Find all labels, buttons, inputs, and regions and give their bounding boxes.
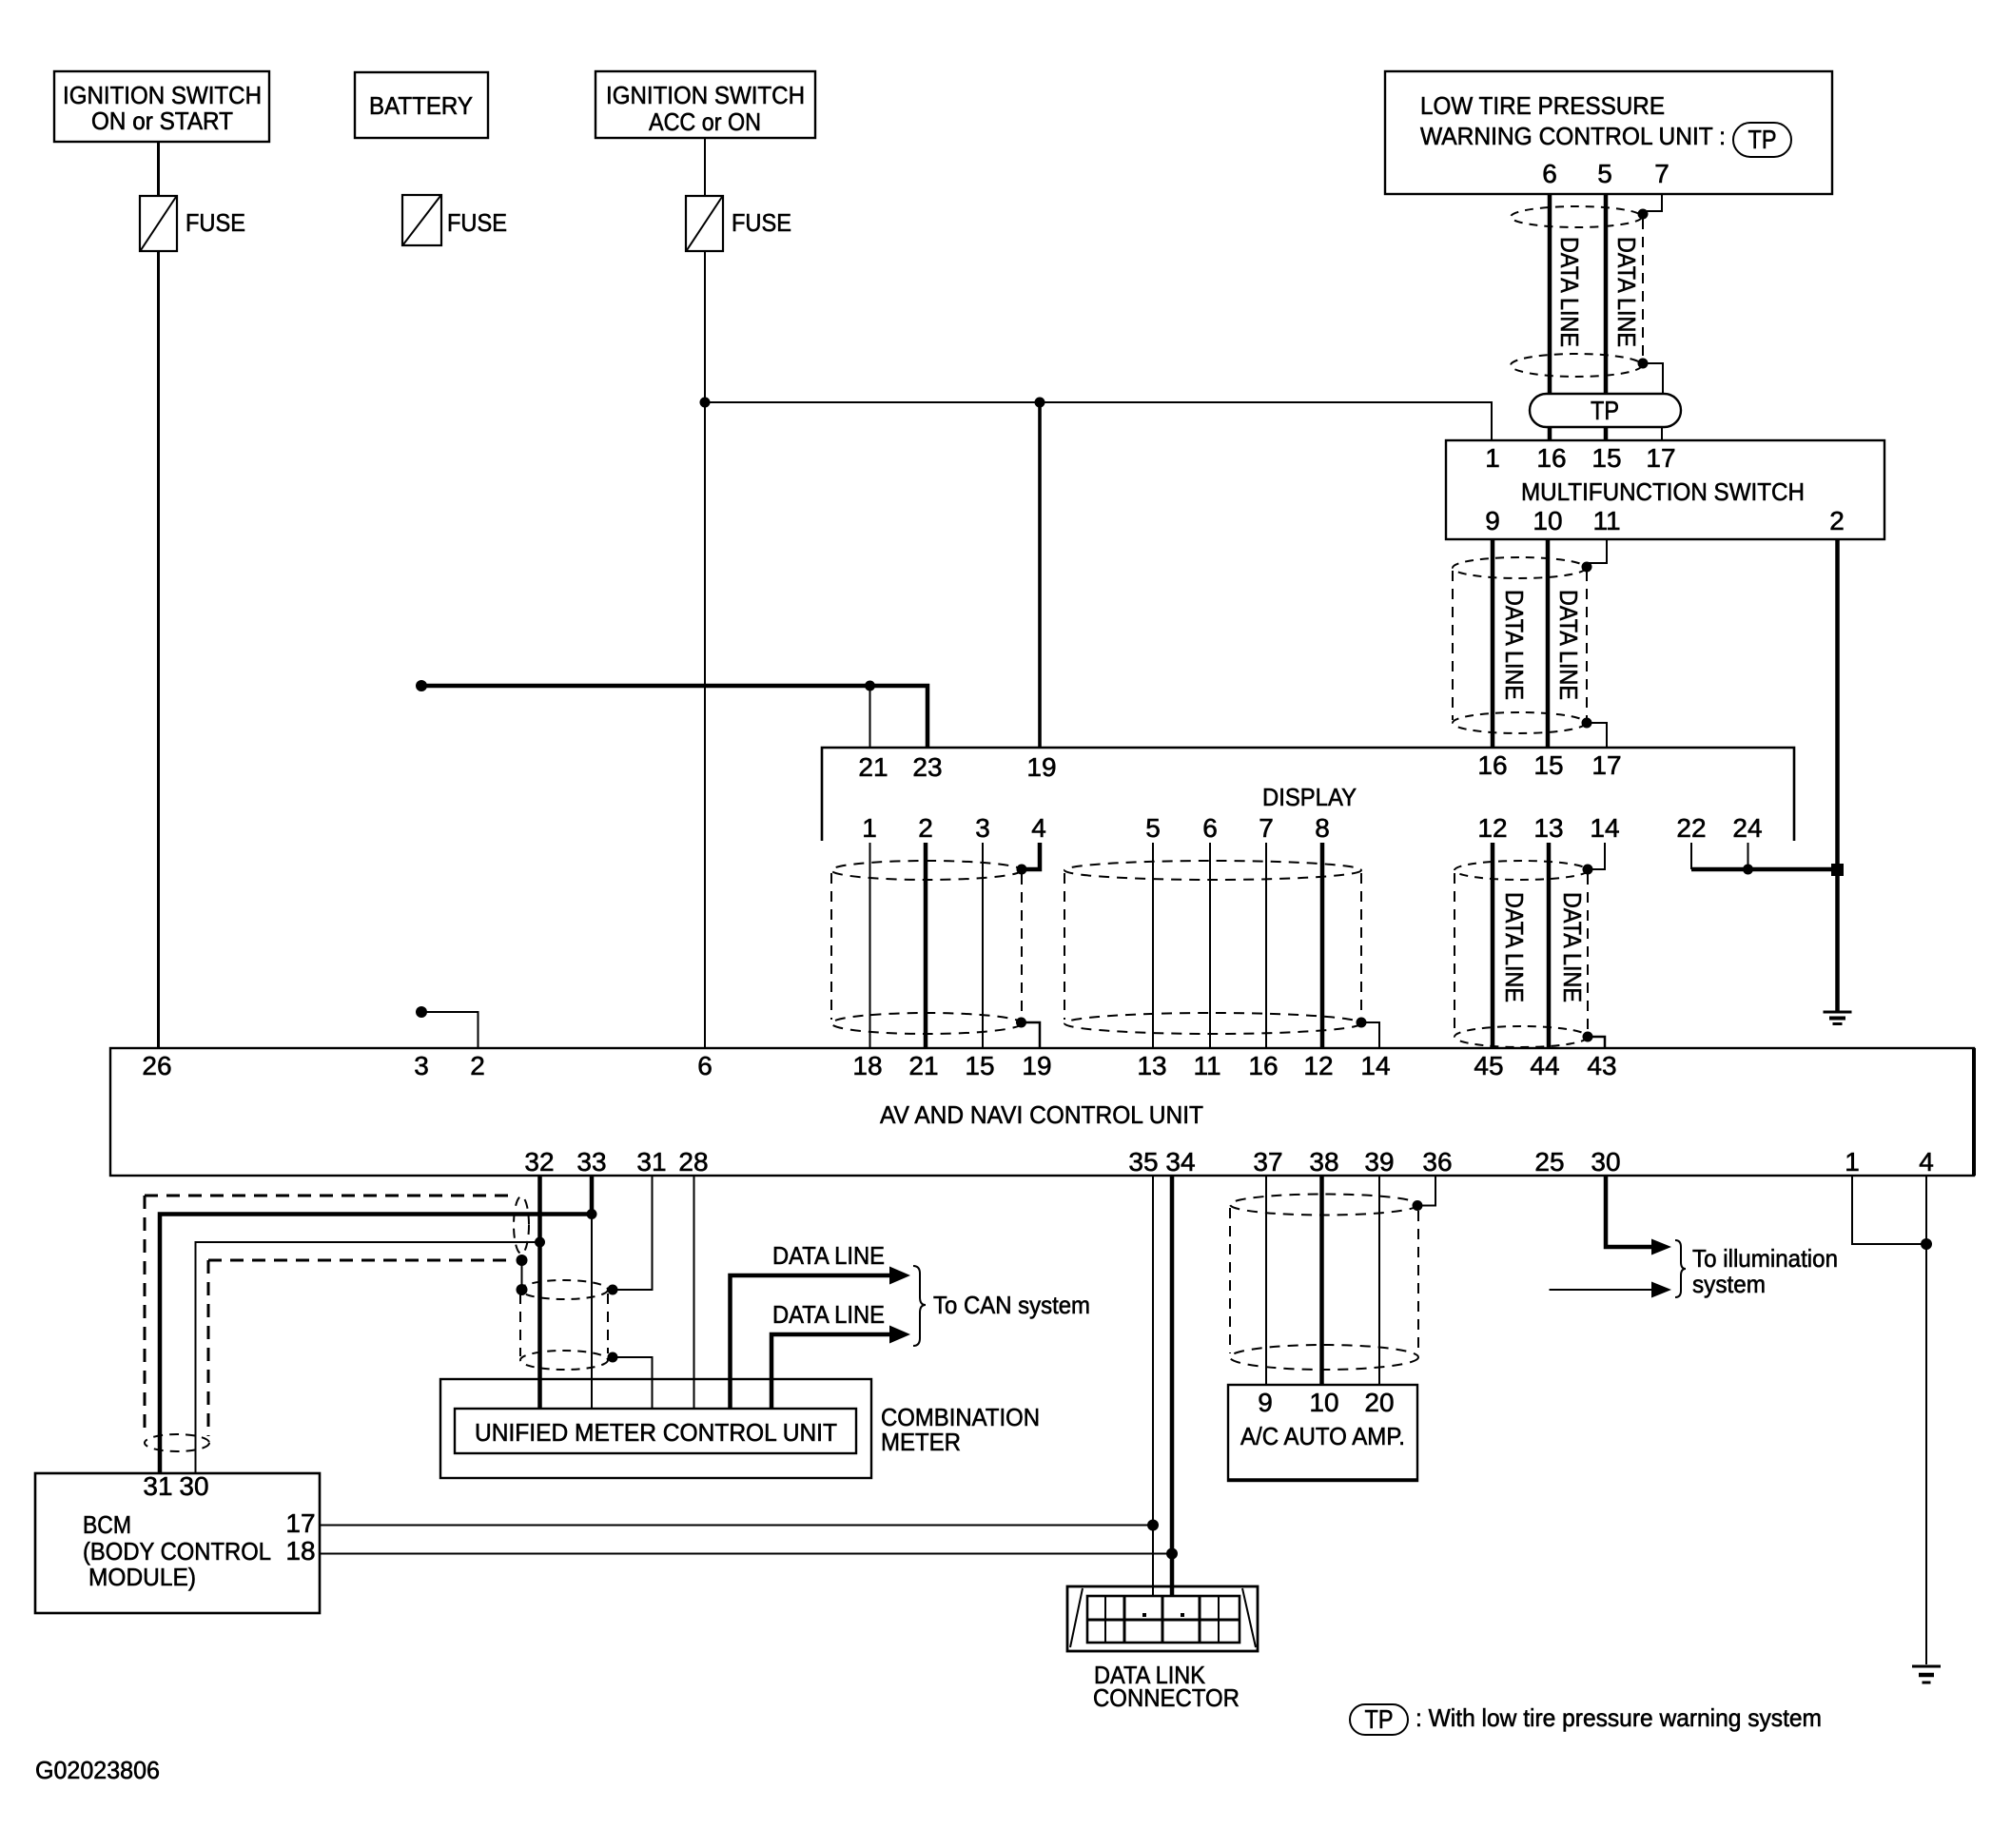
shield E dashed left side: [519, 1294, 521, 1356]
svg-text:BATTERY: BATTERY: [369, 91, 473, 120]
wire shield to display 17: [1587, 723, 1607, 748]
svg-text:36: 36: [1422, 1147, 1452, 1177]
svg-text:4: 4: [1031, 813, 1046, 843]
wire to display pin 19: [1038, 402, 1042, 748]
shield ellipse top (TP pair): [1511, 206, 1642, 227]
svg-text:UNIFIED METER CONTROL UNIT: UNIFIED METER CONTROL UNIT: [475, 1418, 837, 1447]
shield A dot bottom: [1016, 1018, 1026, 1028]
shield D dashed outer side: [144, 1196, 146, 1436]
svg-text:15: 15: [1591, 443, 1621, 473]
svg-text:5: 5: [1597, 159, 1612, 188]
wire fuse1 to AV pin 26: [157, 251, 160, 1048]
shield E ellipse top: [520, 1280, 608, 1299]
svg-text:system: system: [1692, 1270, 1766, 1298]
svg-text:FUSE: FUSE: [732, 208, 791, 237]
shield E ellipse bottom: [520, 1351, 608, 1370]
thin wire to BCM pin 30: [196, 1242, 540, 1473]
wire AV 33 upper thick: [590, 1176, 595, 1215]
svg-text:30: 30: [179, 1471, 208, 1501]
wire y423 to multifunction pin 1: [705, 402, 1492, 440]
svg-text:35: 35: [1128, 1147, 1158, 1177]
shield dot bottom (TP pair): [1638, 359, 1649, 369]
shield B ellipse top: [1064, 861, 1361, 880]
svg-text:ACC or ON: ACC or ON: [649, 107, 761, 136]
A/C auto amp box: [1228, 1385, 1417, 1481]
wire display 13 to AV 44: [1547, 843, 1552, 1048]
low tire pressure warning control unit box: [1385, 71, 1832, 194]
shield A dot top: [1017, 865, 1027, 875]
svg-text:44: 44: [1530, 1051, 1559, 1080]
wire BCM 17 to DLC: [320, 1525, 1153, 1527]
shield C dashed drain: [1587, 874, 1589, 1033]
svg-text:9: 9: [1258, 1388, 1273, 1417]
wire AV 4 to ground: [1925, 1176, 1927, 1664]
shield C dot top: [1583, 865, 1593, 875]
shield D dashed lower line: [208, 1259, 512, 1262]
ground for AV 4: [1912, 1666, 1941, 1683]
svg-text:17: 17: [285, 1508, 315, 1538]
svg-text:31: 31: [636, 1147, 666, 1177]
wire MFS pin 10 to display 15: [1546, 539, 1551, 748]
svg-text:23: 23: [912, 752, 942, 782]
svg-text:DATA LINE: DATA LINE: [772, 1300, 885, 1329]
junction AV32 / BCM30 line: [535, 1237, 545, 1248]
svg-text:18: 18: [852, 1051, 882, 1080]
wire AV 38 to A/C amp: [1319, 1176, 1324, 1385]
svg-text:30: 30: [1591, 1147, 1620, 1177]
svg-text:DATA LINE: DATA LINE: [1500, 590, 1529, 700]
battery box: [355, 72, 488, 138]
wire AV 33 lower to meter: [591, 1215, 593, 1410]
illumination line 2: [1550, 1289, 1654, 1291]
svg-text:LOW TIRE PRESSURE: LOW TIRE PRESSURE: [1420, 91, 1665, 120]
svg-text:TP: TP: [1591, 396, 1619, 425]
CAN arrowhead 2: [889, 1326, 910, 1344]
shield A ellipse top: [831, 861, 1022, 880]
svg-text:6: 6: [1542, 159, 1557, 188]
ground for MFS pin 2: [1824, 1012, 1852, 1024]
shield dot bottom (MFS pair): [1582, 718, 1592, 729]
svg-text:DATA LINE: DATA LINE: [1554, 590, 1583, 700]
svg-text:14: 14: [1590, 813, 1619, 843]
wire stub dot at 443,721: [416, 680, 427, 691]
svg-text:24: 24: [1732, 813, 1762, 843]
svg-text:19: 19: [1022, 1051, 1051, 1080]
wire display 24: [1747, 843, 1749, 869]
wire shield C to AV 43: [1588, 1037, 1605, 1048]
shield A dashed drain: [1021, 874, 1023, 1018]
svg-text:16: 16: [1477, 750, 1507, 780]
shield E top-left dot: [517, 1284, 528, 1295]
wire AV 39 to A/C amp: [1378, 1176, 1380, 1385]
svg-text:2: 2: [1829, 506, 1845, 535]
AV and NAVI control unit box: [110, 1048, 1974, 1177]
wire LTP pin 7 to shield: [1644, 194, 1662, 211]
CAN brace: [913, 1266, 926, 1346]
svg-text:To illumination: To illumination: [1692, 1244, 1838, 1273]
shield F ellipse bottom: [1230, 1345, 1418, 1370]
unified meter control unit box: [455, 1409, 856, 1453]
svg-text:39: 39: [1364, 1147, 1394, 1177]
svg-text:1: 1: [1485, 443, 1500, 473]
svg-text:11: 11: [1592, 506, 1620, 535]
svg-text:1: 1: [1845, 1147, 1860, 1177]
svg-text:DATA LINE: DATA LINE: [772, 1241, 885, 1270]
shield C ellipse top: [1455, 861, 1588, 880]
wire display 14 to shield C: [1591, 843, 1605, 869]
wire AV 28 to meter: [693, 1176, 695, 1409]
shield ellipse bottom (TP pair): [1511, 354, 1642, 377]
wire display 3 to AV 15: [982, 843, 984, 1048]
shield dashed drain (MFS pair): [1586, 571, 1588, 719]
CAN data line 1: [731, 1275, 891, 1409]
svg-text:METER: METER: [881, 1428, 961, 1456]
thick wire 22/24 to pin2 ground line: [1691, 867, 1838, 872]
CAN arrowhead 1: [889, 1267, 910, 1285]
wire display 12 to AV 45: [1491, 843, 1495, 1048]
wire AV 36 to shield F: [1422, 1176, 1435, 1206]
svg-text:DATA LINE: DATA LINE: [1612, 237, 1641, 347]
illumination brace: [1675, 1240, 1686, 1297]
wire AV 35 down to DLC: [1152, 1176, 1154, 1596]
svg-text:20: 20: [1364, 1388, 1394, 1417]
shield C dashed left side: [1454, 873, 1455, 1031]
wire MFS pin 11 to shield: [1588, 539, 1607, 563]
wire shield A to AV 19: [1022, 1022, 1041, 1048]
shield A dashed left side: [830, 873, 832, 1020]
TP inline connector: [1530, 394, 1681, 427]
ignition switch ACC/ON box: [595, 71, 815, 138]
wire display 5 to AV 13: [1152, 843, 1154, 1048]
svg-text:TP: TP: [1748, 125, 1777, 154]
wire shield B to AV 14: [1361, 1022, 1379, 1048]
shield F dashed left side: [1229, 1208, 1231, 1353]
svg-text:FUSE: FUSE: [185, 208, 245, 237]
svg-text:37: 37: [1253, 1147, 1282, 1177]
TP legend oval: [1350, 1704, 1408, 1735]
svg-text:7: 7: [1259, 813, 1274, 843]
svg-text:MODULE): MODULE): [88, 1563, 196, 1591]
wire shield to TP connector: [1643, 363, 1663, 394]
combination meter box: [440, 1379, 1040, 1478]
wire display 22 to ground bus: [1690, 843, 1692, 869]
svg-text:17: 17: [1646, 443, 1675, 473]
wire LTP pin 5 (data line): [1604, 194, 1609, 394]
svg-text:14: 14: [1360, 1051, 1390, 1080]
wire BCM 18 to DLC: [320, 1553, 1172, 1555]
svg-text:IGNITION SWITCH: IGNITION SWITCH: [606, 81, 805, 109]
svg-text:1: 1: [862, 813, 877, 843]
wire display 7 to AV 16: [1265, 843, 1267, 1048]
junction AV34 / BCM18: [1166, 1548, 1178, 1560]
svg-text:7: 7: [1654, 159, 1669, 188]
svg-text:DISPLAY: DISPLAY: [1262, 783, 1357, 811]
svg-text:CONNECTOR: CONNECTOR: [1093, 1683, 1240, 1712]
shield F ellipse top: [1230, 1195, 1418, 1216]
svg-text:AV AND NAVI CONTROL UNIT: AV AND NAVI CONTROL UNIT: [880, 1100, 1203, 1129]
svg-text:5: 5: [1145, 813, 1161, 843]
svg-text:ON or START: ON or START: [91, 107, 233, 135]
shield F dot: [1413, 1200, 1423, 1211]
shield A ellipse bottom: [831, 1013, 1022, 1034]
wire display 2 to AV 21: [924, 843, 928, 1048]
svg-text:2: 2: [470, 1051, 485, 1080]
wire display 8 to AV 12: [1320, 843, 1325, 1048]
svg-text:34: 34: [1165, 1147, 1195, 1177]
wire AV 1 to AV 4 wire: [1852, 1176, 1922, 1244]
shield D dashed inner side: [207, 1260, 210, 1436]
junction on y721: [865, 681, 875, 691]
shield B dot bottom: [1357, 1018, 1367, 1028]
shield B ellipse bottom: [1064, 1013, 1361, 1034]
svg-text:13: 13: [1137, 1051, 1166, 1080]
svg-text:26: 26: [142, 1051, 171, 1080]
junction AV35 / BCM17: [1147, 1520, 1159, 1531]
svg-text:To CAN system: To CAN system: [933, 1291, 1090, 1319]
shield F dashed right side: [1417, 1211, 1419, 1353]
shield C dot bottom: [1583, 1032, 1593, 1042]
svg-text:G02023806: G02023806: [35, 1756, 160, 1784]
shield dashed drain (TP pair): [1642, 219, 1644, 360]
wire branch to display pin 21: [869, 686, 871, 748]
svg-text:6: 6: [1202, 813, 1218, 843]
svg-text:32: 32: [524, 1147, 554, 1177]
wire AV 34 down to DLC: [1170, 1176, 1175, 1596]
shield D drain dot: [517, 1255, 528, 1266]
svg-text:BCM: BCM: [83, 1510, 131, 1539]
illumination arrowhead 1: [1651, 1239, 1671, 1255]
wire stub to AV pin 2: [423, 1012, 478, 1048]
wire display 4 to shield A: [1025, 843, 1040, 869]
BCM box: [35, 1471, 320, 1613]
svg-text:4: 4: [1919, 1147, 1934, 1177]
wire display 6 to AV 11: [1209, 843, 1211, 1048]
display unit open box: [822, 748, 1794, 843]
svg-text:22: 22: [1676, 813, 1706, 843]
svg-text:45: 45: [1474, 1051, 1503, 1080]
svg-text:38: 38: [1309, 1147, 1338, 1177]
svg-text:28: 28: [678, 1147, 708, 1177]
shield C ellipse bottom: [1455, 1026, 1588, 1047]
svg-text:WARNING CONTROL UNIT :: WARNING CONTROL UNIT :: [1420, 122, 1726, 150]
wire TP connector to MFS pin 15: [1604, 427, 1609, 440]
shield E dashed right side: [607, 1294, 609, 1353]
thick wire to BCM pin 31: [160, 1215, 592, 1474]
fuse F3: [686, 196, 791, 251]
shield D bottom cap ellipse: [145, 1434, 209, 1451]
wire stub dot at 443,1064: [416, 1006, 427, 1018]
svg-text:6: 6: [697, 1051, 713, 1080]
wire AV 37 to A/C amp: [1265, 1176, 1267, 1385]
svg-text:11: 11: [1193, 1051, 1220, 1080]
shield dot top (MFS pair): [1582, 562, 1592, 573]
svg-text:: With low tire pressure warni: : With low tire pressure warning system: [1416, 1703, 1822, 1732]
shield B dashed right side: [1360, 873, 1362, 1018]
wire AV 30 to illumination: [1606, 1176, 1653, 1247]
svg-text:19: 19: [1026, 752, 1056, 782]
svg-text:15: 15: [965, 1051, 994, 1080]
shield E drain to meter: [613, 1357, 653, 1409]
wire ignition1 to fuse1: [157, 142, 160, 196]
junction at display19 branch: [1035, 398, 1045, 408]
data link connector symbol: [1067, 1586, 1258, 1651]
wire fuse3 to AV pin 6: [704, 251, 706, 1048]
svg-text:31: 31: [143, 1471, 172, 1501]
svg-text:IGNITION SWITCH: IGNITION SWITCH: [63, 81, 262, 109]
svg-text:DATA LINE: DATA LINE: [1558, 892, 1587, 1002]
junction AV33 / BCM31 line: [587, 1209, 597, 1219]
thick wire y721 to display pin 23: [423, 686, 927, 748]
shield dot top (TP pair): [1638, 209, 1649, 220]
svg-text:9: 9: [1485, 506, 1500, 535]
fuse F2 (battery, unconnected): [402, 195, 507, 245]
svg-text:43: 43: [1587, 1051, 1616, 1080]
svg-text:8: 8: [1315, 813, 1330, 843]
svg-text:TP: TP: [1365, 1704, 1394, 1734]
shield D drain to shield E: [521, 1260, 523, 1286]
multifunction switch box: [1446, 440, 1884, 539]
svg-text:MULTIFUNCTION SWITCH: MULTIFUNCTION SWITCH: [1521, 477, 1805, 506]
svg-text:FUSE: FUSE: [447, 208, 507, 237]
svg-text:25: 25: [1534, 1147, 1564, 1177]
illumination arrowhead 2: [1651, 1282, 1671, 1298]
junction AV1 / AV4: [1921, 1238, 1932, 1250]
svg-text:12: 12: [1303, 1051, 1333, 1080]
shield ellipse bottom (MFS pair): [1453, 712, 1586, 733]
shield dashed left side (MFS pair): [1452, 571, 1454, 720]
wire LTP pin 6 (data line): [1548, 194, 1552, 394]
svg-text:21: 21: [858, 752, 888, 782]
svg-text:12: 12: [1477, 813, 1507, 843]
wire AV 31 to shield E top: [615, 1176, 653, 1290]
svg-text:10: 10: [1309, 1388, 1338, 1417]
shield D right cap ellipse: [514, 1196, 529, 1254]
junction at ACC wire y423: [700, 398, 711, 408]
svg-text:15: 15: [1533, 750, 1563, 780]
ignition switch ON/START box: [54, 71, 269, 142]
svg-text:DATA LINE: DATA LINE: [1500, 892, 1529, 1002]
svg-text:16: 16: [1536, 443, 1566, 473]
junction 24 on ground bus: [1743, 865, 1753, 875]
shield E bottom-right dot: [608, 1352, 618, 1363]
svg-text:21: 21: [908, 1051, 938, 1080]
svg-text:13: 13: [1533, 813, 1563, 843]
svg-text:33: 33: [576, 1147, 606, 1177]
wire AV 32 to meter: [537, 1176, 542, 1409]
svg-text:17: 17: [1591, 750, 1621, 780]
shield ellipse top (MFS pair): [1453, 557, 1586, 578]
svg-text:3: 3: [975, 813, 990, 843]
wire TP connector to MFS pin 16: [1548, 427, 1552, 440]
svg-text:A/C AUTO AMP.: A/C AUTO AMP.: [1240, 1422, 1405, 1450]
svg-text:16: 16: [1248, 1051, 1278, 1080]
wire MFS pin 2 down: [1835, 539, 1840, 1011]
wire TP connector to MFS pin 17: [1661, 427, 1663, 440]
shield E top-right dot: [608, 1285, 618, 1295]
shield B dashed left side: [1064, 873, 1065, 1020]
svg-text:3: 3: [414, 1051, 429, 1080]
svg-text:(BODY CONTROL: (BODY CONTROL: [83, 1537, 271, 1566]
svg-text:18: 18: [285, 1536, 315, 1566]
shield D (BCM pair) dashed top line: [145, 1195, 514, 1197]
fuse F1: [140, 196, 245, 251]
junction pin2 / 22-24 line: [1831, 864, 1844, 876]
svg-text:10: 10: [1533, 506, 1562, 535]
CAN data line 2: [771, 1334, 890, 1409]
wire display 1 to AV 18: [869, 843, 871, 1048]
svg-text:2: 2: [918, 813, 933, 843]
wire MFS pin 9 to display 16: [1491, 539, 1495, 748]
wire ignition2 to fuse3: [704, 138, 706, 196]
svg-text:DATA LINE: DATA LINE: [1555, 237, 1584, 347]
